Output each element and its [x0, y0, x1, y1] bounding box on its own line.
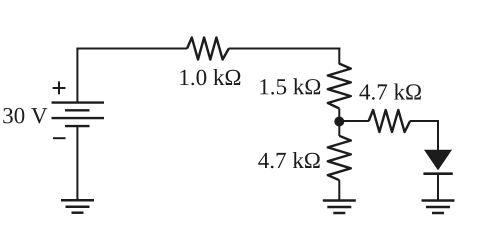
wire (4.7k horizontal resistor to diode branch corner)	[410, 121, 438, 151]
wire (1.5k resistor down to node)	[338, 109, 340, 122]
resistor R3 4.7 kOhm (vertical zigzag)	[328, 136, 351, 180]
resistor R2 1.5 kOhm (vertical zigzag)	[328, 64, 351, 109]
battery VS 30 V (plates)	[52, 103, 105, 127]
diode D1 cathode bar	[423, 172, 452, 175]
wire (top rail left segment)	[76, 48, 187, 50]
wire (top rail right segment)	[229, 48, 341, 50]
wire (battery + terminal up to top rail)	[76, 49, 78, 103]
ground (below 4.7 kOhm resistor)	[323, 201, 356, 214]
label 4.7 kOhm (shunt resistor)	[258, 152, 320, 168]
resistor R1 1.0 kOhm (horizontal zigzag)	[187, 38, 229, 60]
label 30 V	[3, 108, 47, 124]
wire (node right to 4.7k horizontal resistor)	[339, 120, 369, 122]
battery minus sign	[53, 137, 66, 139]
ground (below diode)	[422, 201, 455, 214]
ground (below battery)	[61, 200, 94, 213]
node (junction dot)	[334, 117, 344, 127]
battery plus sign	[53, 81, 66, 94]
diode D1 (anode triangle pointing down)	[424, 150, 452, 171]
label 1.0 kOhm	[180, 69, 240, 85]
wire (right branch: top rail down to 1.5k resistor)	[338, 48, 340, 65]
wire (battery - terminal down to ground)	[76, 126, 78, 200]
label 4.7 kOhm (series resistor)	[359, 84, 421, 100]
wire (node down to 4.7k resistor)	[338, 122, 340, 137]
wire (4.7k resistor down to ground)	[338, 180, 340, 200]
label 1.5 kOhm	[260, 78, 320, 94]
resistor R4 4.7 kOhm (horizontal zigzag)	[369, 110, 410, 132]
wire (diode cathode down to ground)	[437, 174, 439, 201]
